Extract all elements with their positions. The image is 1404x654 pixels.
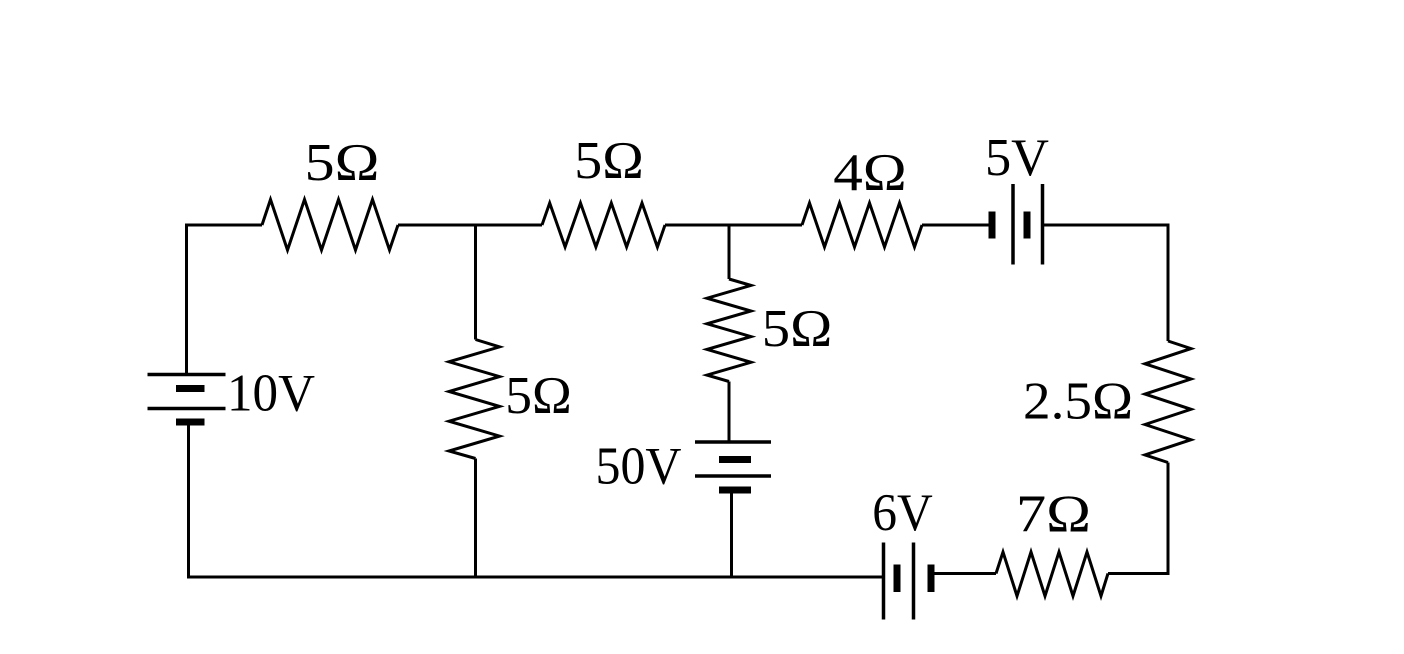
svg-text:6V: 6V [872,484,933,542]
battery 10V short plate upper [176,385,205,392]
battery 5V short plate right [1024,212,1031,239]
battery 50V long plate top [695,440,771,444]
wire from 5V battery to top-right corner [1044,224,1168,227]
battery 6V long plate right [912,543,916,620]
battery 5V long plate right [1041,184,1045,265]
svg-text:5Ω: 5Ω [305,134,380,192]
wire from 6V battery to 7ohm [931,572,996,575]
wire bottom from left corner to 6V battery [187,576,884,579]
svg-text:2.5Ω: 2.5Ω [1023,373,1133,431]
svg-text:5Ω: 5Ω [762,300,833,358]
wire right side lower [1167,463,1170,574]
svg-text:4Ω: 4Ω [833,144,907,202]
wire middle-left branch upper [474,225,477,340]
resistor 5ohm top-left zigzag [262,200,398,251]
battery 10V short plate lower [176,419,205,426]
svg-text:10V: 10V [227,365,315,423]
wire top between R1 and R2 [398,224,542,227]
wire from 4ohm to 5V battery [922,224,989,227]
resistor 5ohm middle-left vertical zigzag [449,340,500,459]
battery 6V short plate right [928,565,935,593]
resistor 5ohm top-middle zigzag [542,203,665,247]
wire top between R2 and R3 [665,224,802,227]
wire left side lower [187,424,190,579]
battery 50V short plate upper [719,456,751,463]
resistor 4ohm zigzag [802,203,922,247]
battery 6V short plate left [894,565,901,593]
wire right side upper [1167,224,1170,342]
battery 50V short plate lower [719,487,751,494]
resistor 2.5ohm zigzag [1145,341,1191,463]
wire middle branch between 5ohm and 50V battery [728,382,731,442]
wire middle-left branch lower [474,459,477,579]
svg-text:50V: 50V [596,438,682,496]
svg-text:5Ω: 5Ω [505,367,572,425]
wire middle branch upper [728,225,731,279]
wire bottom-right corner to 7ohm [1108,572,1170,575]
battery 5V long plate left [1011,184,1015,265]
wire middle branch lower [730,492,733,579]
battery 6V long plate left [882,543,886,620]
battery 50V long plate bottom [695,474,771,478]
resistor 5ohm middle vertical zigzag [707,279,751,382]
battery 10V long plate top [148,373,226,377]
svg-text:5Ω: 5Ω [574,132,644,190]
battery 10V long plate bottom [148,407,226,411]
wire left side upper [185,224,188,375]
resistor 7ohm zigzag [996,552,1108,596]
battery 5V short plate left [989,212,996,239]
wire top-left segment [187,224,263,227]
svg-text:7Ω: 7Ω [1016,486,1091,544]
svg-text:5V: 5V [985,129,1049,187]
